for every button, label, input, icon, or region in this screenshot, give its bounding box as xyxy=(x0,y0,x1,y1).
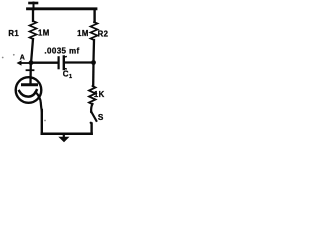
tube V1 xyxy=(16,77,42,111)
specks xyxy=(2,57,4,59)
svg-text:1K: 1K xyxy=(94,90,105,99)
switch contact xyxy=(90,122,92,124)
svg-text:1M: 1M xyxy=(38,29,50,38)
resistor 1K xyxy=(89,63,96,113)
wire node A down to tube xyxy=(29,63,32,84)
wire top rail xyxy=(28,7,97,10)
svg-text:.0035 mf: .0035 mf xyxy=(44,47,79,56)
wire bottom right up to switch xyxy=(90,124,92,134)
resistor R1 xyxy=(30,9,37,61)
svg-text:1M: 1M xyxy=(77,29,89,38)
node A xyxy=(17,60,34,65)
switch S blade xyxy=(91,112,96,121)
svg-text:A: A xyxy=(20,55,25,62)
wire bottom rail xyxy=(42,133,92,136)
wire node A to capacitor xyxy=(31,62,58,64)
wire right drop to R2 xyxy=(93,9,95,22)
wire tube cathode down xyxy=(41,110,43,134)
B+ terminal arrow xyxy=(30,3,38,10)
node junction right xyxy=(91,60,96,65)
ground xyxy=(58,134,69,142)
svg-text:C1: C1 xyxy=(63,69,73,80)
svg-text:R1: R1 xyxy=(8,29,19,38)
wire capacitor to right branch xyxy=(65,61,94,63)
svg-text:R2: R2 xyxy=(98,29,109,38)
capacitor C1 xyxy=(59,57,67,70)
resistor R2 xyxy=(91,22,98,61)
tick on tube lead xyxy=(27,69,34,71)
svg-text:S: S xyxy=(98,113,104,122)
